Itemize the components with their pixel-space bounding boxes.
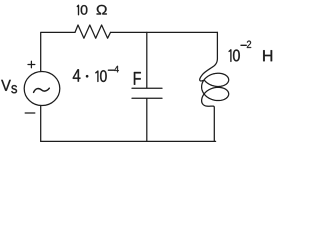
label C value digit 1 [96,71,98,81]
capacitor branch bottom [146,99,148,142]
wire top-right [111,31,218,33]
label Vs letter V [1,80,11,91]
minus [25,112,35,114]
resistor R 10ohm [75,25,111,38]
capacitor plate bottom [132,97,162,99]
label Vs subscript s [11,85,17,93]
plus [28,61,35,68]
capacitor plate top [132,87,162,89]
label L exponent digit 2 [247,41,251,48]
wire top-left [41,32,75,71]
capacitor branch top [146,32,148,87]
label R value digit 1 [77,5,78,14]
wire source-bottom [40,106,42,141]
label C value cdot [86,75,89,78]
label C value digit 4 [73,69,81,81]
label L unit H [263,50,272,61]
label R value digit 0 [81,5,88,15]
label C exponent minus [108,69,113,71]
sine symbol [34,88,50,92]
source circle Vs [24,71,60,105]
label C unit F [134,72,141,85]
label L exponent minus [241,44,246,46]
label L value digit 1 [229,50,231,62]
label L value digit 0 [233,50,240,62]
inductor L coil with stems [200,32,229,141]
label C exponent digit 4 [114,66,119,72]
label R unit Omega [97,5,107,15]
label C value digit 0 [100,70,107,82]
wire bottom [41,140,216,142]
